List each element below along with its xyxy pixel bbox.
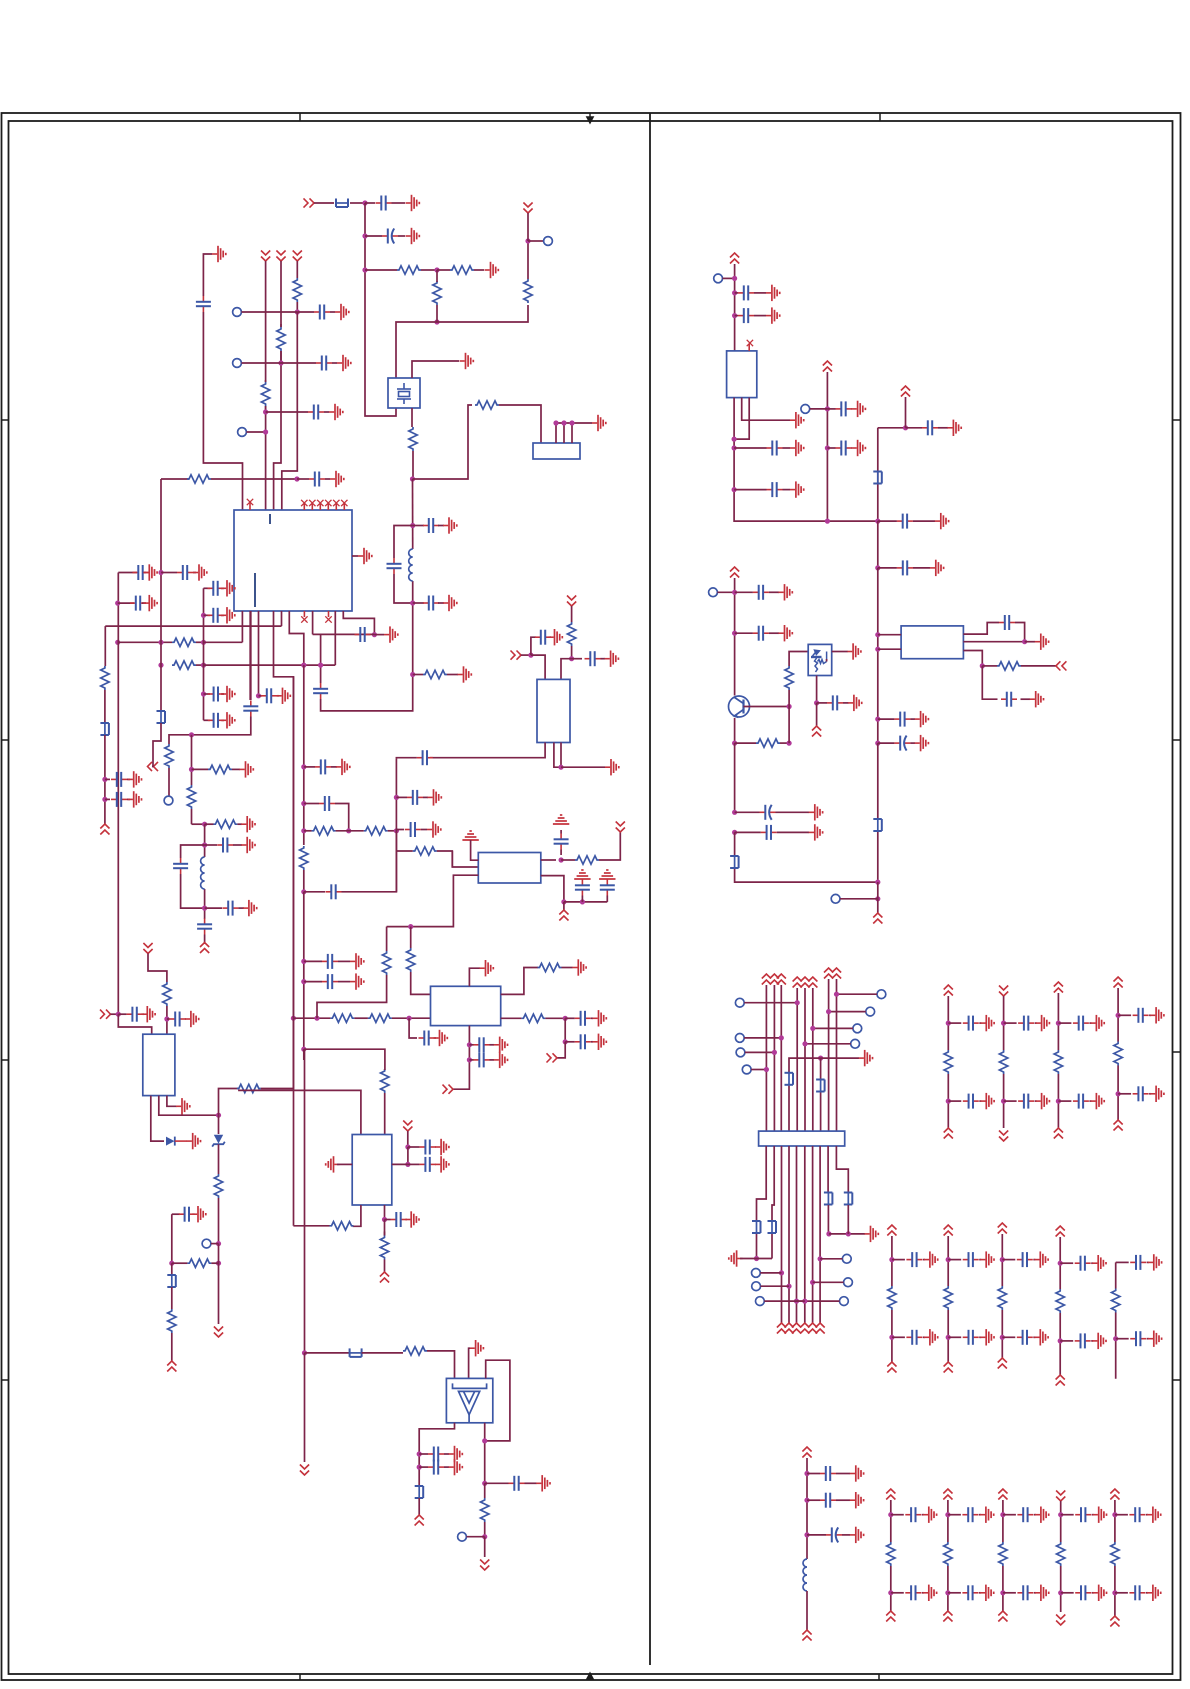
wire bbox=[171, 1263, 173, 1275]
capacitor C25 bbox=[326, 884, 342, 899]
junction bbox=[1113, 1336, 1118, 1341]
wire bbox=[982, 665, 997, 667]
ferrite bead FB13 bbox=[768, 1220, 777, 1234]
wire column C75 bbox=[1057, 993, 1059, 1050]
wire bbox=[338, 960, 350, 962]
ferrite bead FB11 bbox=[816, 1079, 825, 1093]
wire rail x118 bbox=[117, 573, 119, 1015]
no-connect pin bbox=[341, 500, 347, 506]
wire U1 top pin bbox=[265, 406, 267, 510]
wire bbox=[878, 567, 897, 569]
ground bbox=[335, 304, 349, 320]
ground bbox=[848, 695, 862, 711]
capacitor C30 bbox=[405, 822, 421, 837]
wire bbox=[435, 1146, 437, 1148]
wire U8 right pin1 bbox=[963, 623, 999, 635]
wire bbox=[168, 768, 170, 796]
power flag bbox=[998, 1611, 1007, 1622]
junction bbox=[732, 590, 737, 595]
ground bbox=[1036, 1093, 1050, 1109]
capacitor C33 bbox=[423, 518, 439, 533]
junction bbox=[201, 691, 206, 696]
wire bbox=[332, 362, 337, 364]
junction bbox=[301, 764, 306, 769]
wire bbox=[827, 447, 835, 449]
junction bbox=[1056, 1099, 1061, 1104]
junction bbox=[1116, 1013, 1121, 1018]
wire bbox=[891, 1592, 904, 1594]
wire bbox=[776, 811, 810, 813]
ground bbox=[1150, 1007, 1164, 1023]
ferrite bead FB6 bbox=[415, 1485, 424, 1499]
wire cap row bbox=[118, 572, 137, 574]
wire bbox=[734, 832, 736, 855]
wire bbox=[913, 520, 935, 522]
wire bbox=[813, 1281, 844, 1283]
wire bbox=[905, 397, 907, 428]
resistor R13 bbox=[165, 744, 173, 768]
wire bbox=[789, 1058, 821, 1072]
capacitor C70 bbox=[827, 695, 843, 710]
wire bbox=[436, 270, 438, 281]
junction bbox=[1058, 1590, 1063, 1595]
capacitor C83b bbox=[962, 1585, 978, 1600]
ground bbox=[449, 1446, 463, 1462]
wire bbox=[1004, 1022, 1017, 1024]
wire rail x191 bbox=[191, 735, 193, 785]
capacitor C43 bbox=[575, 1034, 591, 1049]
capacitor C16 bbox=[111, 792, 127, 807]
wire bbox=[421, 829, 427, 831]
power flag bbox=[1056, 1226, 1065, 1237]
wire bbox=[840, 898, 878, 900]
junction bbox=[561, 899, 566, 904]
power flag bbox=[887, 1362, 896, 1373]
capacitor C24 bbox=[319, 796, 335, 811]
wire bbox=[259, 695, 263, 697]
wire bbox=[104, 690, 106, 723]
port P30 bbox=[756, 1297, 765, 1306]
port P7 bbox=[164, 796, 173, 805]
wire bbox=[913, 567, 930, 569]
wire bbox=[832, 651, 848, 653]
wire column C76 bbox=[1117, 1066, 1119, 1121]
IC U3 bbox=[431, 986, 501, 1025]
wire bbox=[204, 587, 211, 589]
resistor R27 bbox=[382, 951, 390, 975]
ground bbox=[141, 1006, 155, 1022]
ground bbox=[406, 228, 420, 244]
junction bbox=[732, 437, 737, 442]
junction bbox=[410, 523, 415, 528]
junction bbox=[158, 640, 163, 645]
wire bbox=[304, 1353, 306, 1462]
wire bbox=[238, 907, 244, 909]
wire emitter bbox=[734, 718, 736, 743]
capacitor C37 bbox=[535, 630, 551, 645]
junction bbox=[553, 420, 558, 425]
wire bbox=[413, 525, 424, 527]
wire bbox=[469, 1059, 473, 1061]
wire bbox=[892, 1336, 905, 1338]
port P5 bbox=[238, 428, 247, 437]
wire bbox=[780, 742, 789, 744]
junction bbox=[814, 700, 819, 705]
wire U3 right pin2 bbox=[501, 1017, 522, 1019]
wire bbox=[127, 778, 130, 780]
power flag bbox=[762, 974, 771, 985]
ground bbox=[443, 595, 457, 611]
junction bbox=[1058, 1338, 1063, 1343]
capacitor C69 bbox=[753, 626, 769, 641]
wire U1 pin bbox=[312, 611, 314, 634]
port P31 bbox=[844, 1278, 853, 1287]
capacitor C78a bbox=[963, 1252, 979, 1267]
top border tick bbox=[299, 113, 301, 121]
bottom border tick bbox=[878, 1674, 880, 1680]
wire row2 bbox=[242, 362, 282, 364]
wire bbox=[118, 602, 134, 604]
resistor C84 bbox=[999, 1542, 1007, 1566]
ferrite bead FB15 bbox=[844, 1192, 853, 1206]
capacitor C66 bbox=[894, 712, 910, 727]
wire bbox=[384, 1093, 386, 1135]
resistor R42 bbox=[785, 666, 793, 690]
wire U7 pin3 bbox=[734, 398, 749, 440]
wire bbox=[734, 489, 766, 491]
junction bbox=[764, 1067, 769, 1072]
capacitor C20 bbox=[222, 901, 238, 916]
wire bbox=[354, 1017, 368, 1019]
wire rail down bbox=[877, 521, 879, 568]
wire bbox=[396, 757, 416, 760]
ground bbox=[847, 643, 861, 659]
wire bbox=[296, 261, 298, 278]
power flag bbox=[886, 1489, 895, 1500]
wire LC branch bbox=[394, 526, 413, 559]
junction bbox=[946, 1257, 951, 1262]
ground bbox=[549, 629, 563, 645]
junction bbox=[946, 1099, 951, 1104]
ground bbox=[850, 1527, 864, 1543]
wire bbox=[769, 632, 779, 634]
wire rail bbox=[734, 264, 736, 351]
inductor L3 bbox=[803, 1559, 807, 1591]
junction bbox=[407, 1016, 412, 1021]
resistor R32 bbox=[163, 982, 171, 1006]
wire bbox=[218, 1115, 220, 1134]
wire J2 out4 bbox=[788, 1146, 790, 1323]
port P21 bbox=[736, 1048, 745, 1057]
junction bbox=[410, 672, 415, 677]
capacitor C10 bbox=[130, 596, 146, 611]
resistor R41 bbox=[997, 662, 1021, 670]
capacitor C80a bbox=[1075, 1256, 1091, 1271]
ferrite bead FB3 bbox=[157, 710, 166, 724]
crystal X1 symbol bbox=[397, 383, 411, 404]
wire U5 left pin bbox=[337, 1163, 352, 1165]
wire column C84 bbox=[1002, 1500, 1004, 1542]
wire U5 bottom pin bbox=[353, 1205, 361, 1226]
power flag bbox=[816, 1323, 825, 1334]
wire U6 out bbox=[419, 1423, 454, 1485]
junction bbox=[405, 1162, 410, 1167]
capacitor C4 bbox=[196, 296, 211, 312]
wire bbox=[490, 1059, 495, 1061]
ground bbox=[980, 1015, 994, 1031]
capacitor C81b bbox=[1130, 1331, 1146, 1346]
wire bbox=[979, 1336, 981, 1338]
wire bbox=[744, 1037, 781, 1039]
power flag bbox=[998, 1358, 1007, 1369]
wire J2 pin1 bbox=[765, 985, 767, 1131]
wire bbox=[384, 1220, 386, 1236]
junction bbox=[888, 1590, 893, 1595]
junction bbox=[417, 1451, 422, 1456]
top center arrow bbox=[587, 113, 593, 123]
wire bbox=[813, 1027, 853, 1029]
junction bbox=[169, 1261, 174, 1266]
wire bbox=[783, 489, 791, 491]
wire bbox=[484, 1537, 486, 1557]
ground bbox=[766, 307, 780, 323]
ground bbox=[536, 1475, 550, 1491]
wire rail x161 bbox=[160, 479, 162, 711]
port P22 bbox=[742, 1065, 751, 1074]
ground bbox=[850, 1465, 864, 1481]
power flag bbox=[943, 1611, 952, 1622]
wire bbox=[237, 823, 242, 825]
junction bbox=[732, 276, 737, 281]
wire bbox=[281, 362, 316, 364]
wire column C73 bbox=[947, 996, 949, 1050]
capacitor C81a bbox=[1130, 1255, 1146, 1270]
wire bbox=[218, 1144, 220, 1174]
resistor R26 bbox=[567, 622, 575, 646]
wire bbox=[1004, 1100, 1017, 1102]
wire bbox=[204, 719, 211, 721]
wire bbox=[293, 1225, 329, 1227]
wire bbox=[304, 891, 325, 893]
ground bbox=[935, 513, 949, 529]
junction bbox=[1001, 1099, 1006, 1104]
wire bbox=[788, 707, 790, 744]
capacitor C86a bbox=[1129, 1507, 1145, 1522]
power flag bbox=[1054, 1128, 1063, 1139]
amplifier U6 symbol bbox=[453, 1383, 487, 1422]
wire stub bbox=[303, 1049, 305, 1060]
resistor R35 bbox=[187, 1259, 211, 1267]
capacitor C40 bbox=[575, 880, 590, 896]
wire bbox=[438, 602, 444, 604]
wire bbox=[1035, 1022, 1037, 1024]
junction bbox=[802, 1041, 807, 1046]
wire bbox=[196, 664, 204, 666]
wire U1 pin to rowA bbox=[241, 611, 243, 642]
junction bbox=[314, 1016, 319, 1021]
capacitor C56 bbox=[738, 308, 754, 323]
resistor R30 bbox=[538, 963, 562, 971]
junction bbox=[102, 797, 107, 802]
resistor C76 bbox=[1114, 1042, 1122, 1066]
port P23 bbox=[877, 990, 886, 999]
capacitor C8 bbox=[177, 565, 193, 580]
capacitor C75b bbox=[1073, 1094, 1089, 1109]
wire rail bbox=[734, 578, 736, 696]
wire base bbox=[744, 706, 790, 708]
wire to crystal top bbox=[396, 322, 437, 378]
wire bbox=[192, 768, 209, 770]
wire bbox=[388, 830, 397, 832]
wire bbox=[167, 1018, 170, 1020]
wire bbox=[906, 427, 923, 429]
resistor R4 bbox=[524, 279, 532, 303]
ground bbox=[358, 548, 372, 564]
ground bbox=[980, 1507, 994, 1523]
capacitor C14 bbox=[208, 713, 224, 728]
ground bbox=[1034, 1329, 1048, 1345]
wire bbox=[1025, 641, 1035, 643]
wire J1 pin bbox=[563, 423, 565, 443]
wire rail x413 bbox=[412, 581, 414, 675]
wire bbox=[923, 1336, 925, 1338]
resistor R1 bbox=[397, 266, 421, 274]
wire column C83 bbox=[947, 1500, 949, 1542]
wire column C75 bbox=[1057, 1074, 1059, 1128]
junction bbox=[417, 1465, 422, 1470]
wire column C84 bbox=[1002, 1566, 1004, 1611]
wire J2 out2 bbox=[772, 1146, 774, 1220]
wire U1 pin bbox=[281, 611, 283, 626]
wire bbox=[304, 960, 322, 962]
wire bbox=[161, 572, 177, 574]
junction bbox=[263, 409, 268, 414]
junction bbox=[318, 663, 323, 668]
wire jog down bbox=[335, 804, 349, 831]
power flag bbox=[999, 1131, 1008, 1142]
ground bbox=[809, 804, 823, 820]
junction bbox=[875, 896, 880, 901]
wire bbox=[447, 674, 458, 676]
resistor R7 bbox=[293, 278, 301, 302]
resistor R31 bbox=[521, 1014, 545, 1022]
wire bbox=[484, 1423, 486, 1484]
IC U7 bbox=[727, 351, 757, 398]
wire U1 pin long rail bbox=[274, 611, 294, 1225]
ground bbox=[1147, 1585, 1161, 1601]
ferrite bead FB12 bbox=[752, 1220, 761, 1234]
transistor Q1 bbox=[729, 696, 750, 717]
resistor R38 bbox=[380, 1236, 388, 1260]
wire bbox=[1116, 1338, 1129, 1340]
wire bbox=[744, 1002, 797, 1004]
junction bbox=[1058, 1512, 1063, 1517]
junction bbox=[1112, 1590, 1117, 1595]
wire bbox=[563, 902, 565, 911]
junction bbox=[804, 1471, 809, 1476]
wire bbox=[561, 766, 605, 768]
junction bbox=[158, 663, 163, 668]
capacitor C52 bbox=[428, 1447, 444, 1462]
wire bbox=[365, 202, 375, 204]
wire bbox=[365, 235, 382, 237]
junction bbox=[787, 741, 792, 746]
capacitor C49 bbox=[420, 1140, 436, 1155]
wire bbox=[467, 1536, 485, 1538]
wire bbox=[922, 1514, 924, 1516]
wire row1018 bbox=[293, 1017, 330, 1019]
resistor C78 bbox=[944, 1286, 952, 1310]
capacitor C74a bbox=[1018, 1016, 1034, 1031]
wire bbox=[821, 1057, 859, 1059]
resistor R12 bbox=[101, 666, 109, 690]
junction bbox=[394, 828, 399, 833]
no-connect pin bbox=[301, 500, 307, 506]
junction bbox=[946, 1021, 951, 1026]
wire bbox=[277, 695, 279, 697]
wire bbox=[152, 762, 153, 767]
capacitor C46 bbox=[127, 1007, 143, 1022]
capacitor C48 bbox=[179, 1207, 195, 1222]
capacitor C5 bbox=[314, 305, 330, 320]
wire bbox=[591, 1041, 593, 1043]
ground bbox=[128, 771, 142, 787]
ground bbox=[193, 564, 207, 580]
right border tick bbox=[1173, 1379, 1181, 1381]
junction bbox=[804, 1532, 809, 1537]
IC U1 bbox=[234, 510, 352, 611]
ground bbox=[980, 1093, 994, 1109]
wire J2 out3 bbox=[781, 1146, 783, 1323]
power flag bbox=[944, 1128, 953, 1139]
wire bbox=[979, 1100, 981, 1102]
wire rail x191 bbox=[191, 809, 193, 824]
junction bbox=[256, 693, 261, 698]
junction bbox=[189, 732, 194, 737]
ground bbox=[852, 440, 866, 456]
wire bbox=[948, 1259, 961, 1261]
wire bbox=[735, 292, 738, 294]
ground bbox=[852, 401, 866, 417]
wire U8 pin bbox=[878, 634, 901, 636]
wire bbox=[1149, 1014, 1151, 1016]
capacitor C15 bbox=[111, 772, 127, 787]
junction bbox=[558, 765, 563, 770]
port P25 bbox=[853, 1024, 862, 1033]
junction bbox=[732, 313, 737, 318]
ground bbox=[924, 1329, 938, 1345]
ground bbox=[915, 735, 929, 751]
no-connect pin bbox=[747, 340, 753, 346]
wire bbox=[1034, 1514, 1036, 1516]
resistor R10 bbox=[172, 638, 196, 646]
junction bbox=[818, 1256, 823, 1261]
junction bbox=[732, 445, 737, 450]
junction bbox=[301, 959, 306, 964]
wire bbox=[143, 1013, 144, 1015]
wire U1 pin jog right bbox=[343, 611, 374, 635]
port P18 bbox=[831, 894, 840, 903]
wire bbox=[111, 1013, 119, 1015]
capacitor C18 bbox=[217, 838, 233, 853]
capacitor C86b bbox=[1129, 1585, 1145, 1600]
wire bbox=[1002, 1336, 1015, 1338]
wire bbox=[292, 1224, 294, 1227]
ground bbox=[329, 404, 343, 420]
RF shield U3A bbox=[478, 853, 541, 884]
wire rowB bbox=[204, 664, 336, 666]
ground bbox=[1150, 1086, 1164, 1102]
